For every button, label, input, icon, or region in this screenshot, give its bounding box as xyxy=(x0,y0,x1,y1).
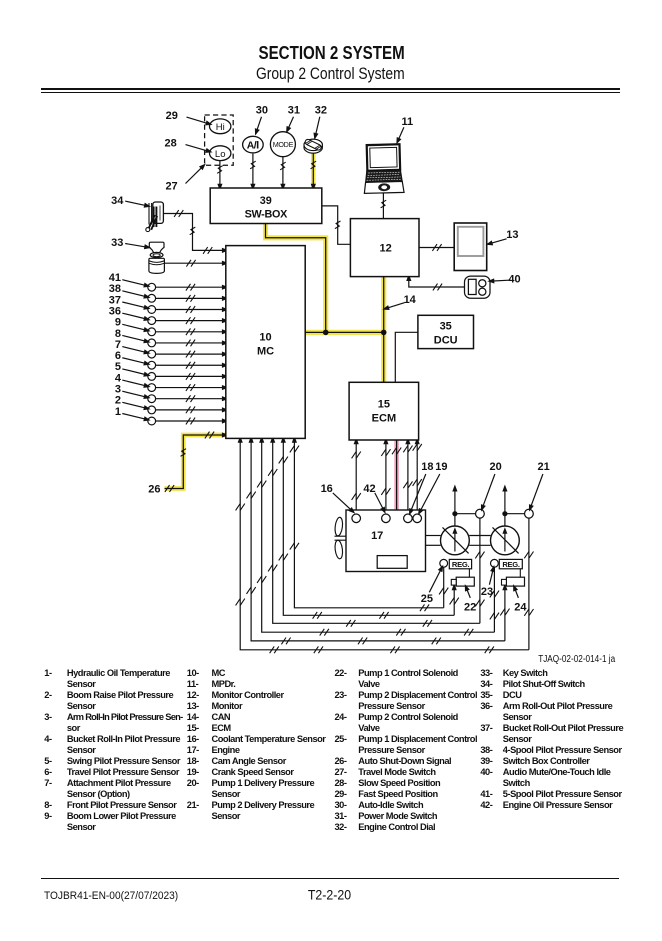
svg-text:10: 10 xyxy=(259,331,271,343)
regulator REG 1 xyxy=(449,559,471,568)
wire Lo to SW-BOX xyxy=(219,160,221,187)
sensor circle 18 cam angle sensor xyxy=(404,514,413,523)
svg-text:29: 29 xyxy=(166,110,178,122)
wire 26 yellow band xyxy=(165,435,226,489)
sensor circle 7 (left input) xyxy=(148,350,156,358)
svg-text:24: 24 xyxy=(514,601,527,613)
sensor circle 5 (left input) xyxy=(148,373,156,381)
wire switch 40 to 12 xyxy=(409,278,465,288)
svg-text:SECTION 2 SYSTEM: SECTION 2 SYSTEM xyxy=(259,43,405,63)
engine control dial 32 xyxy=(304,139,322,154)
svg-text:26: 26 xyxy=(148,483,160,495)
legend xyxy=(44,668,51,679)
wire sensor 6 to MC xyxy=(156,364,225,366)
ECM box 15 xyxy=(349,382,419,440)
svg-text:34: 34 xyxy=(111,195,124,207)
sensor circle 37 (left input) xyxy=(148,306,156,314)
wire crank speed sensor 19 to ECM xyxy=(416,441,418,514)
svg-text:REG.: REG. xyxy=(452,560,470,569)
fan xyxy=(334,517,346,559)
Hi ellipse xyxy=(210,119,231,134)
svg-text:20: 20 xyxy=(489,461,501,473)
sensor circle 1 (left input) xyxy=(148,417,156,425)
pump1 control solenoid valve 22 xyxy=(456,577,474,586)
svg-text:17: 17 xyxy=(371,530,383,542)
sensor circle 25 pump1 displacement xyxy=(440,559,448,567)
svg-text:35: 35 xyxy=(440,321,452,333)
dashed selector group box (27) xyxy=(205,115,234,165)
sensor circle 42 engine oil pressure sensor xyxy=(382,514,391,523)
svg-text:32: 32 xyxy=(315,105,327,117)
svg-text:15: 15 xyxy=(378,399,390,411)
wire coolant temp sensor 16 to ECM xyxy=(355,441,357,514)
wire MC to pump1 delivery sensor 20 (loop bus) xyxy=(273,439,480,623)
wire MC to pump2 solenoid valve 24 (loop bus) xyxy=(251,439,505,641)
svg-text:14: 14 xyxy=(404,294,417,306)
wire sensor 41 to MC xyxy=(156,286,225,288)
wire riser to sensor circle 21 xyxy=(528,518,530,650)
wire riser to sensor circle 23 xyxy=(493,567,495,632)
sensor circle 20 xyxy=(476,509,485,518)
svg-text:16: 16 xyxy=(321,483,333,495)
wire 42 pink band (engine oil pressure) xyxy=(394,440,399,552)
svg-text:REG.: REG. xyxy=(502,560,520,569)
svg-text:Lo: Lo xyxy=(215,149,226,160)
wire engine oil pressure pink centre xyxy=(396,440,398,551)
svg-text:TJAQ-02-02-014-1 ja: TJAQ-02-02-014-1 ja xyxy=(538,654,615,665)
wire SW-BOX to 12 xyxy=(322,206,351,244)
pump2 control solenoid valve 24 xyxy=(506,577,524,586)
svg-text:28: 28 xyxy=(165,138,177,150)
svg-text:Hi: Hi xyxy=(216,122,225,133)
wire sensor 9 to MC xyxy=(156,331,225,333)
wire riser to solenoid valve 22 xyxy=(453,587,455,616)
wire riser to sensor circle 20 xyxy=(479,518,481,623)
svg-text:MODE: MODE xyxy=(273,140,294,149)
svg-text:MC: MC xyxy=(257,345,274,357)
svg-text:42: 42 xyxy=(363,483,375,495)
svg-text:11: 11 xyxy=(401,116,413,128)
svg-text:ECM: ECM xyxy=(372,413,396,425)
svg-text:30: 30 xyxy=(256,105,268,117)
wire CAN yellow band: monitor vertical + horizontal + ECM drop xyxy=(381,277,386,383)
sensor circle 38 (left input) xyxy=(148,294,156,302)
wire 26 black centre xyxy=(165,435,226,489)
svg-text:12: 12 xyxy=(379,243,391,255)
svg-text:18: 18 xyxy=(421,461,433,473)
sensor circle 19 crank speed sensor xyxy=(413,514,422,523)
monitor controller box 12 xyxy=(350,219,419,277)
wire laptop to monitor controller 12 xyxy=(382,193,384,219)
wire sensor 1 to MC xyxy=(156,420,225,422)
junction node CAN x monitor drop xyxy=(381,330,387,336)
MODE switch circle 31 xyxy=(270,132,295,157)
Lo ellipse xyxy=(210,146,231,161)
wire key switch 33 to MC xyxy=(164,262,225,264)
wire dial 32 to SW-BOX (black centre) xyxy=(312,152,314,187)
pilot shut-off switch 34 icon xyxy=(146,202,164,232)
wire riser to solenoid valve 24 xyxy=(504,587,506,641)
sensor circle 23 pump2 displacement xyxy=(491,559,499,567)
wire CAN centre: MC horizontal xyxy=(305,331,386,333)
wire MC to pump2 displacement sensor 23 (loop bus) xyxy=(262,439,495,632)
wire riser to sensor circle 25 xyxy=(443,567,445,608)
wire sensor 36 to MC xyxy=(156,320,225,322)
svg-text:21: 21 xyxy=(537,461,549,473)
A/I switch ellipse 30 xyxy=(243,136,264,153)
svg-text:1: 1 xyxy=(115,406,121,418)
svg-text:T2-2-20: T2-2-20 xyxy=(308,886,351,902)
svg-text:25: 25 xyxy=(421,593,433,605)
sensor circle 8 (left input) xyxy=(148,339,156,347)
junction node CAN x SW-BOX branch xyxy=(323,330,329,336)
svg-text:33: 33 xyxy=(111,237,123,249)
main controller MC 10 xyxy=(226,246,305,439)
wire MC to pump1 displacement sensor 25 (loop bus) xyxy=(294,439,443,608)
switch box controller SW-BOX 39 xyxy=(210,188,322,224)
wire pilot shut-off switch 34 to MC xyxy=(163,214,226,251)
wire CAN centre: 12 to ECM vertical xyxy=(383,277,385,383)
svg-text:27: 27 xyxy=(165,181,177,193)
wire MC to pump2 delivery sensor 21 (loop bus) xyxy=(240,439,529,650)
wire 42 sensor to ECM xyxy=(385,441,387,514)
wire sensor 4 to MC xyxy=(156,387,225,389)
svg-text:SW-BOX: SW-BOX xyxy=(245,209,288,221)
pump 1 xyxy=(441,526,470,555)
sensor circle 3 (left input) xyxy=(148,395,156,403)
sensor circle 36 (left input) xyxy=(148,317,156,325)
wire 32 dial yellow drop xyxy=(311,152,316,188)
wire pump 1 drive + junction xyxy=(454,514,456,527)
wire DCU to ECM xyxy=(395,332,418,382)
svg-text:TOJBR41-EN-00(27/07/2023): TOJBR41-EN-00(27/07/2023) xyxy=(44,890,178,902)
wire MODE to SW-BOX xyxy=(282,156,284,187)
wire sensor 2 to MC xyxy=(156,409,225,411)
sensor circle 21 xyxy=(525,509,534,518)
wire A/I to SW-BOX xyxy=(252,154,254,188)
wire cam angle sensor 18 to ECM xyxy=(407,441,409,514)
shaft pump1 to pump2 xyxy=(469,535,490,537)
pump 2 xyxy=(491,526,520,555)
wire CAN centre: SW-BOX branch xyxy=(266,224,326,333)
footer rule xyxy=(41,878,619,879)
svg-text:22: 22 xyxy=(464,601,476,613)
svg-text:31: 31 xyxy=(288,105,300,117)
wire sensor 5 to MC xyxy=(156,375,225,377)
wire pump 2 drive + junction xyxy=(504,514,506,527)
key switch 33 icon xyxy=(149,242,165,273)
svg-text:19: 19 xyxy=(435,461,447,473)
sensor circle 6 (left input) xyxy=(148,361,156,369)
laptop MPDr 11 xyxy=(363,144,404,193)
svg-text:A/I: A/I xyxy=(247,140,259,152)
sensor circle 4 (left input) xyxy=(148,384,156,392)
svg-text:DCU: DCU xyxy=(434,335,458,347)
monitor 13 xyxy=(454,223,487,271)
sensor circle 2 (left input) xyxy=(148,406,156,414)
audio mute / one-touch idle switch 40 xyxy=(465,276,491,298)
svg-text:39: 39 xyxy=(260,195,272,207)
regulator REG 2 xyxy=(499,559,522,568)
sensor circle 41 (left input) xyxy=(148,283,156,291)
svg-text:23: 23 xyxy=(481,586,493,598)
sensor circle 16 coolant temp sensor xyxy=(352,514,361,523)
wire sensor 8 to MC xyxy=(156,342,225,344)
sensor circle 9 (left input) xyxy=(148,328,156,336)
DCU box 35 xyxy=(418,315,474,348)
wire 12 to monitor 13 xyxy=(419,247,454,249)
wire sensor 3 to MC xyxy=(156,398,225,400)
header double rule xyxy=(41,88,620,90)
shaft engine to pump1 xyxy=(426,535,441,537)
engine inner block xyxy=(377,556,407,569)
wire MC to pump1 solenoid valve 22 (loop bus) xyxy=(283,439,454,615)
wire sensor 7 to MC xyxy=(156,353,225,355)
svg-text:13: 13 xyxy=(506,229,518,241)
svg-text:Group 2 Control System: Group 2 Control System xyxy=(256,65,405,83)
wire sensor 37 to MC xyxy=(156,309,225,311)
svg-text:40: 40 xyxy=(508,274,520,286)
wire sensor 38 to MC xyxy=(156,297,225,299)
engine box 17 xyxy=(346,510,426,572)
wire CAN yellow band: SW-BOX branch xyxy=(266,224,326,333)
